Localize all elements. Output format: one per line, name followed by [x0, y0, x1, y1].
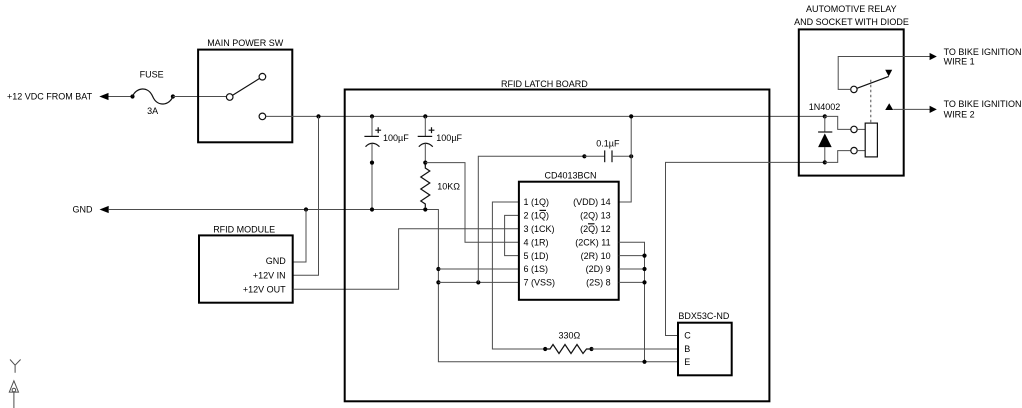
- svg-text:RFID LATCH BOARD: RFID LATCH BOARD: [501, 79, 588, 89]
- junction VSS riser on pin 7 wire: [476, 280, 480, 284]
- capacitor C3 0.1uF: [582, 138, 633, 162]
- svg-text:E: E: [684, 357, 690, 367]
- wire pin 7: [438, 281, 519, 283]
- wire arrow to fuse: [109, 96, 133, 98]
- node TO BIKE IGNITION WIRE 2 arrow: [930, 106, 937, 113]
- capacitor C1 100uF: [364, 116, 409, 209]
- wire terminal to coil: [857, 150, 865, 152]
- svg-text:4 (1R): 4 (1R): [524, 237, 549, 247]
- svg-text:MAIN POWER SW: MAIN POWER SW: [207, 38, 284, 48]
- coil upper terminal: [851, 126, 857, 132]
- wire pin 8 stub: [619, 281, 645, 283]
- relay common terminal: [851, 86, 857, 92]
- relay armature: [857, 76, 889, 88]
- IC U1 CD4013BCN box: [519, 182, 619, 300]
- svg-text:(2Q) 13: (2Q) 13: [580, 211, 611, 221]
- svg-text:WIRE 2: WIRE 2: [944, 110, 975, 120]
- wire 0.1uF to +12V rail: [630, 116, 632, 156]
- wire pin 9 stub: [619, 268, 645, 270]
- svg-text:100µF: 100µF: [436, 133, 462, 143]
- node TO BIKE IGNITION WIRE 1 arrow: [930, 53, 937, 60]
- coil lower terminal: [851, 147, 857, 153]
- svg-text:2 (1Q): 2 (1Q): [524, 211, 550, 221]
- wire 330 ohm to transistor B: [592, 348, 679, 350]
- wire pin 11 to transistor E bus: [619, 242, 645, 362]
- junction pin 10: [642, 254, 646, 258]
- antenna arrow: [9, 381, 18, 408]
- junction GND to pin 6: [436, 267, 440, 271]
- wire NO contact to wire 2 output: [893, 108, 930, 110]
- svg-text:3 (1CK): 3 (1CK): [524, 224, 555, 234]
- junction +12V IN riser: [316, 114, 320, 118]
- svg-text:7 (VSS): 7 (VSS): [524, 278, 556, 288]
- junction GND to pin 7: [436, 280, 440, 284]
- armature contact arrow: [885, 70, 892, 77]
- svg-text:FUSE: FUSE: [140, 70, 164, 80]
- svg-text:+12 VDC FROM BAT: +12 VDC FROM BAT: [7, 92, 93, 102]
- svg-text:(2S) 8: (2S) 8: [586, 278, 611, 288]
- wire +12V rail: switch to relay: [266, 115, 825, 117]
- svg-text:AUTOMOTIVE RELAY: AUTOMOTIVE RELAY: [806, 4, 897, 14]
- svg-text:GND: GND: [266, 256, 287, 266]
- svg-text:(2D) 9: (2D) 9: [586, 264, 611, 274]
- svg-text:+12V OUT: +12V OUT: [243, 284, 286, 294]
- main power switch box: [198, 50, 292, 143]
- svg-text:BDX53C-ND: BDX53C-ND: [678, 311, 730, 321]
- wire diode bottom to coil lower terminal: [825, 151, 851, 163]
- wire transistor C to relay: [666, 162, 825, 335]
- relay NO contact: [885, 103, 893, 110]
- svg-text:6 (1S): 6 (1S): [524, 264, 549, 274]
- svg-text:TO BIKE IGNITION: TO BIKE IGNITION: [944, 99, 1022, 109]
- svg-text:AND SOCKET WITH DIODE: AND SOCKET WITH DIODE: [794, 17, 909, 27]
- svg-text:5 (1D): 5 (1D): [524, 251, 549, 261]
- svg-text:0.1µF: 0.1µF: [596, 138, 620, 148]
- wire pin 1 to 330 ohm: [492, 202, 545, 349]
- wire +12V OUT to IC pin 3: [293, 229, 519, 289]
- svg-text:330Ω: 330Ω: [559, 331, 581, 341]
- junction diode anode on +12V rail: [823, 114, 827, 118]
- relay coil K1: [865, 123, 877, 157]
- svg-text:1 (1Q): 1 (1Q): [524, 197, 550, 207]
- capacitor C2 100uF: [418, 116, 463, 166]
- automotive relay box: [799, 29, 904, 175]
- junction E bus on GND wire: [642, 360, 646, 364]
- RFID module box: [199, 235, 293, 302]
- resistor R2 330 ohm: [543, 331, 594, 354]
- svg-text:+12V IN: +12V IN: [253, 270, 286, 280]
- wire pin 10 stub: [619, 255, 645, 257]
- svg-text:RFID MODULE: RFID MODULE: [213, 225, 275, 235]
- svg-text:(2CK) 11: (2CK) 11: [575, 237, 610, 247]
- resistor R1 10K ohm: [421, 165, 461, 212]
- wire fuse to switch: [173, 96, 227, 98]
- node GND off-page arrow: [100, 206, 109, 213]
- junction cap C1 top: [370, 114, 374, 118]
- svg-text:(VDD) 14: (VDD) 14: [573, 197, 611, 207]
- svg-text:TO BIKE IGNITION: TO BIKE IGNITION: [944, 47, 1022, 57]
- junction 0.1uF riser on +12V rail: [629, 114, 633, 118]
- wire VSS riser to 0.1uF: [478, 156, 584, 282]
- svg-text:100µF: 100µF: [383, 133, 409, 143]
- wire cap C2 bottom to IC pin 4: [425, 163, 519, 243]
- junction cap C2 top: [423, 114, 427, 118]
- wire pin 6: [438, 268, 519, 270]
- junction pin 8: [642, 280, 646, 284]
- junction cap C1 bottom on GND rail: [370, 207, 374, 211]
- wire terminal to coil: [857, 128, 865, 130]
- wire common terminal to wire 1 output: [838, 57, 930, 90]
- svg-text:WIRE 1: WIRE 1: [944, 57, 975, 67]
- wire diode top to coil upper terminal: [825, 116, 851, 129]
- wire GND riser to RFID module: [293, 210, 306, 263]
- antenna symbol: [10, 360, 21, 373]
- RFID latch board box: [345, 90, 770, 402]
- node +12V off-page arrow: [99, 93, 108, 100]
- junction pin 9: [642, 267, 646, 271]
- svg-text:3A: 3A: [147, 106, 158, 116]
- svg-text:(2R) 10: (2R) 10: [581, 251, 611, 261]
- svg-text:GND: GND: [73, 205, 94, 215]
- svg-text:1N4002: 1N4002: [809, 102, 841, 112]
- junction GND riser: [304, 207, 308, 211]
- svg-text:10KΩ: 10KΩ: [437, 182, 460, 192]
- svg-text:B: B: [684, 344, 690, 354]
- diode D1 1N4002: [809, 102, 841, 164]
- wire +12V IN riser to RFID module: [293, 116, 319, 275]
- transistor Q1 BDX53C-ND box: [678, 323, 732, 376]
- svg-text:CD4013BCN: CD4013BCN: [544, 170, 596, 180]
- wire GND rail: [109, 210, 678, 362]
- fuse F1 3A: [130, 70, 175, 117]
- wire 0.1uF to IC pin 14: [619, 156, 632, 202]
- relay actuation dashed link: [870, 80, 872, 123]
- svg-text:(2Q) 12: (2Q) 12: [580, 224, 611, 234]
- switch SW1: [226, 73, 265, 119]
- svg-text:C: C: [684, 331, 691, 341]
- wire pin 2 to pin 5: [505, 215, 519, 255]
